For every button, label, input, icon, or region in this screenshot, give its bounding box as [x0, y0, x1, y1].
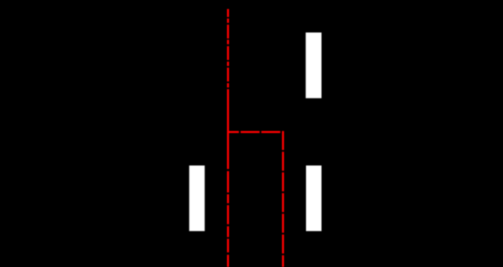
- centerline + trajectory union, lower dashes: [227, 171, 229, 267]
- lane marking dash, right lane boundary lower: [306, 166, 322, 232]
- lane marking dash, left lane boundary: [189, 166, 205, 232]
- lane marking dash, right lane boundary upper: [306, 33, 322, 99]
- lane-change branch path (red dashed: right then down): [228, 132, 283, 267]
- straight ego trajectory overlapping centerline (continuous stretch): [227, 89, 229, 169]
- lane centerline, upper dash-dot segments: [227, 9, 229, 88]
